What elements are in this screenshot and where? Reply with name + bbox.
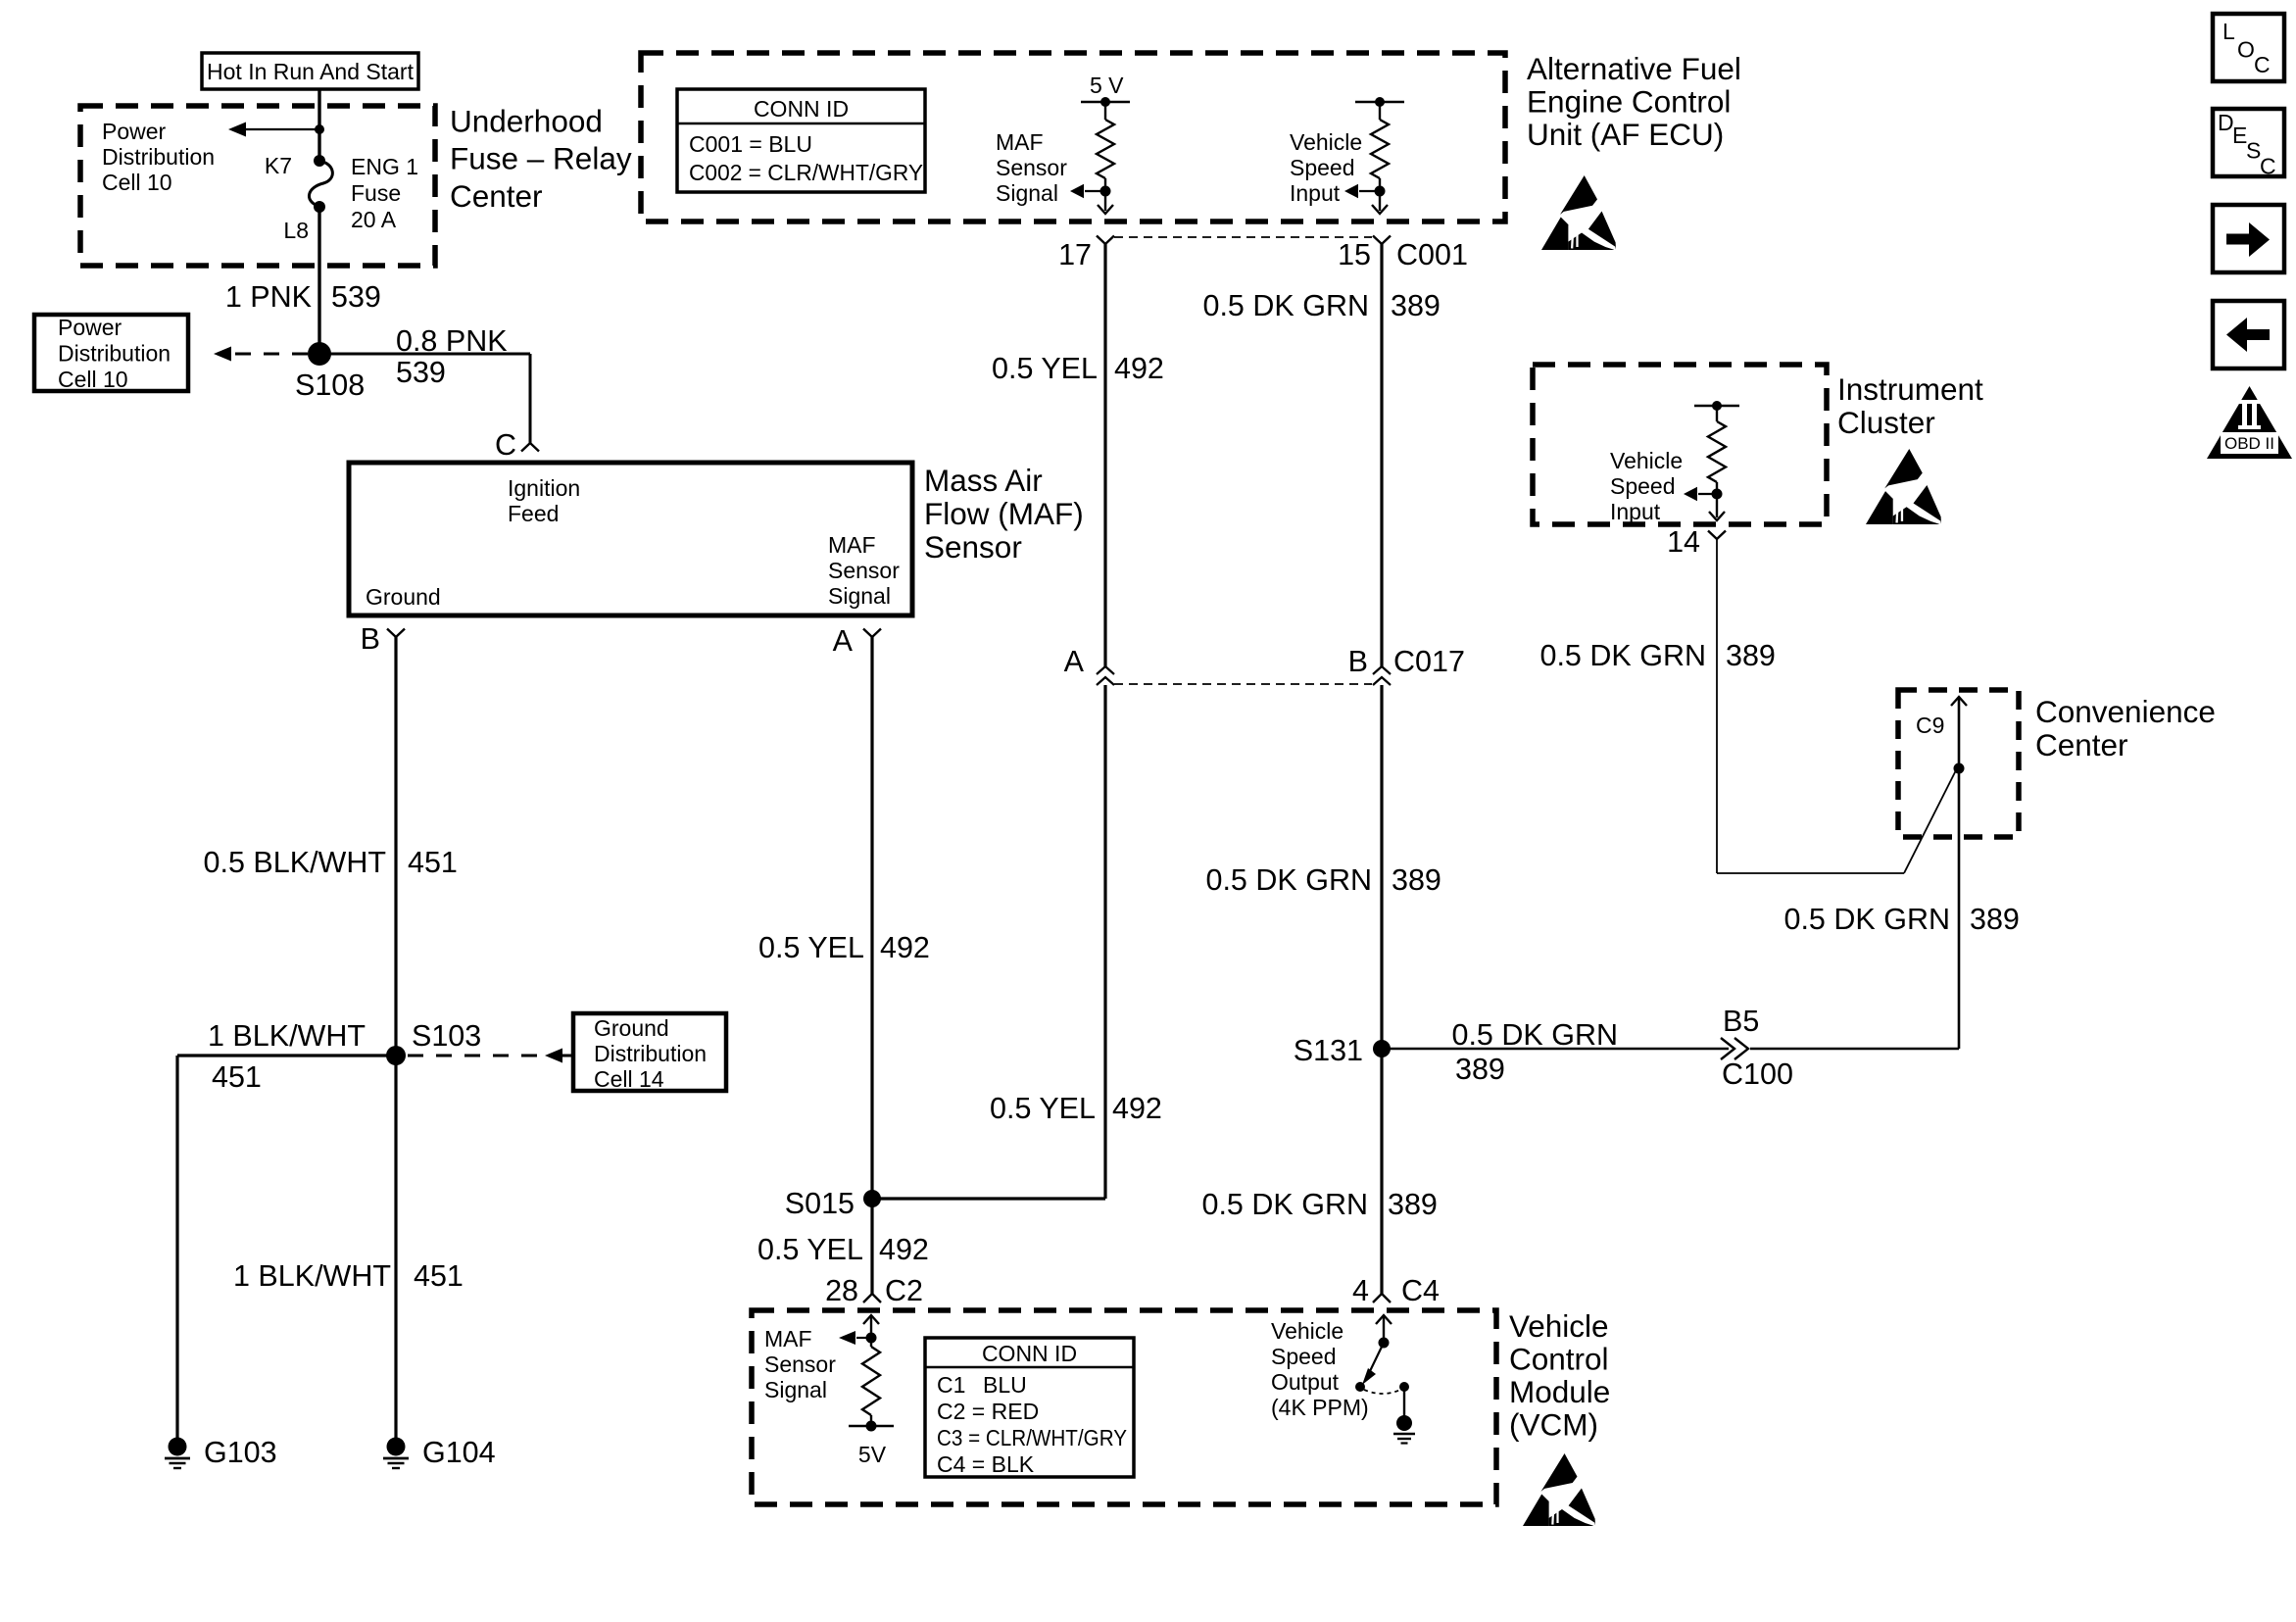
svg-text:539: 539 xyxy=(396,356,446,389)
svg-text:389: 389 xyxy=(1392,863,1441,897)
svg-text:0.5 BLK/WHT: 0.5 BLK/WHT xyxy=(204,846,386,879)
svg-text:C001 = BLU: C001 = BLU xyxy=(689,131,812,157)
svg-text:Vehicle: Vehicle xyxy=(1271,1318,1343,1344)
svg-text:S015: S015 xyxy=(785,1187,855,1220)
svg-text:17: 17 xyxy=(1058,238,1092,271)
svg-text:Speed: Speed xyxy=(1290,155,1355,180)
svg-text:389: 389 xyxy=(1388,1188,1438,1221)
svg-text:CONN ID: CONN ID xyxy=(982,1341,1077,1366)
svg-text:20 A: 20 A xyxy=(351,207,397,232)
svg-text:Sensor: Sensor xyxy=(828,558,900,583)
svg-text:C: C xyxy=(2254,52,2271,77)
svg-text:C002 = CLR/WHT/GRY: C002 = CLR/WHT/GRY xyxy=(689,160,923,185)
svg-text:Vehicle: Vehicle xyxy=(1290,129,1362,155)
svg-text:0.5 YEL: 0.5 YEL xyxy=(758,931,864,964)
svg-text:Input: Input xyxy=(1610,499,1661,524)
svg-text:Input: Input xyxy=(1290,180,1341,206)
svg-text:5V: 5V xyxy=(858,1442,887,1467)
svg-text:MAF: MAF xyxy=(764,1326,812,1352)
svg-text:S103: S103 xyxy=(412,1019,481,1053)
svg-text:Instrument: Instrument xyxy=(1837,371,1983,407)
svg-text:Underhood: Underhood xyxy=(450,104,603,139)
svg-text:0.5 DK GRN: 0.5 DK GRN xyxy=(1203,289,1370,322)
svg-text:0.5 DK GRN: 0.5 DK GRN xyxy=(1540,639,1707,672)
svg-text:O: O xyxy=(2237,37,2255,63)
svg-text:MAF: MAF xyxy=(996,129,1044,155)
svg-text:Distribution: Distribution xyxy=(58,341,171,367)
svg-text:Center: Center xyxy=(2035,727,2128,762)
svg-text:S108: S108 xyxy=(295,369,365,402)
svg-text:BLU: BLU xyxy=(983,1372,1027,1398)
svg-text:5 V: 5 V xyxy=(1090,73,1124,98)
svg-text:C2: C2 xyxy=(885,1274,923,1307)
svg-text:389: 389 xyxy=(1455,1053,1505,1086)
svg-text:539: 539 xyxy=(331,280,381,314)
svg-text:28: 28 xyxy=(825,1274,858,1307)
svg-text:Speed: Speed xyxy=(1271,1344,1337,1369)
svg-text:L8: L8 xyxy=(283,218,309,243)
svg-text:C001: C001 xyxy=(1396,238,1468,271)
svg-text:0.5 YEL: 0.5 YEL xyxy=(992,352,1098,385)
svg-text:C100: C100 xyxy=(1722,1057,1793,1091)
svg-text:4: 4 xyxy=(1352,1274,1369,1307)
svg-text:Vehicle: Vehicle xyxy=(1509,1308,1609,1344)
svg-text:Mass Air: Mass Air xyxy=(924,463,1043,498)
svg-text:C3 = CLR/WHT/GRY: C3 = CLR/WHT/GRY xyxy=(937,1425,1127,1450)
svg-text:15: 15 xyxy=(1338,238,1371,271)
svg-text:451: 451 xyxy=(212,1060,262,1094)
svg-text:C9: C9 xyxy=(1916,713,1944,738)
svg-text:ENG 1: ENG 1 xyxy=(351,154,418,179)
svg-text:OBD II: OBD II xyxy=(2224,434,2274,453)
svg-text:Sensor: Sensor xyxy=(764,1352,836,1377)
svg-text:Signal: Signal xyxy=(828,583,891,609)
svg-text:Distribution: Distribution xyxy=(594,1041,707,1066)
svg-text:14: 14 xyxy=(1667,525,1700,559)
svg-text:389: 389 xyxy=(1970,903,2020,936)
svg-text:(4K PPM): (4K PPM) xyxy=(1271,1395,1369,1420)
svg-text:0.5 YEL: 0.5 YEL xyxy=(757,1233,863,1266)
svg-text:Ignition: Ignition xyxy=(508,475,580,501)
svg-text:A: A xyxy=(1064,645,1085,678)
svg-text:Engine Control: Engine Control xyxy=(1527,84,1731,120)
svg-text:K7: K7 xyxy=(265,153,292,178)
svg-text:C4 = BLK: C4 = BLK xyxy=(937,1451,1035,1477)
svg-text:1 BLK/WHT: 1 BLK/WHT xyxy=(208,1019,366,1053)
svg-text:C017: C017 xyxy=(1393,645,1465,678)
svg-text:Unit (AF ECU): Unit (AF ECU) xyxy=(1527,117,1724,152)
svg-text:492: 492 xyxy=(880,931,930,964)
svg-text:Output: Output xyxy=(1271,1369,1340,1395)
svg-text:0.5 DK GRN: 0.5 DK GRN xyxy=(1784,903,1951,936)
svg-text:389: 389 xyxy=(1726,639,1776,672)
svg-text:G103: G103 xyxy=(204,1436,277,1469)
svg-text:B5: B5 xyxy=(1723,1005,1759,1038)
svg-text:C1: C1 xyxy=(937,1372,965,1398)
svg-text:0.5 DK GRN: 0.5 DK GRN xyxy=(1206,863,1373,897)
svg-text:Fuse: Fuse xyxy=(351,180,401,206)
svg-text:Alternative Fuel: Alternative Fuel xyxy=(1527,51,1741,86)
svg-text:Cell 10: Cell 10 xyxy=(58,367,128,392)
svg-text:G104: G104 xyxy=(422,1436,496,1469)
svg-text:L: L xyxy=(2223,19,2235,44)
svg-text:Cell 14: Cell 14 xyxy=(594,1066,664,1092)
svg-text:0.8 PNK: 0.8 PNK xyxy=(396,324,508,358)
svg-text:0.5 DK GRN: 0.5 DK GRN xyxy=(1452,1018,1619,1052)
svg-text:S131: S131 xyxy=(1294,1034,1363,1067)
svg-text:Fuse – Relay: Fuse – Relay xyxy=(450,141,632,176)
svg-text:Signal: Signal xyxy=(764,1377,827,1402)
svg-text:C2 = RED: C2 = RED xyxy=(937,1399,1039,1424)
svg-text:451: 451 xyxy=(414,1259,464,1293)
svg-text:1 BLK/WHT: 1 BLK/WHT xyxy=(233,1259,391,1293)
svg-text:Sensor: Sensor xyxy=(996,155,1067,180)
svg-text:Ground: Ground xyxy=(366,584,441,610)
svg-text:C4: C4 xyxy=(1401,1274,1440,1307)
svg-text:0.5 YEL: 0.5 YEL xyxy=(990,1092,1096,1125)
svg-text:Hot In Run And Start: Hot In Run And Start xyxy=(207,59,415,84)
svg-text:Feed: Feed xyxy=(508,501,559,526)
svg-text:A: A xyxy=(833,624,854,658)
svg-text:Center: Center xyxy=(450,178,543,214)
svg-text:389: 389 xyxy=(1391,289,1441,322)
svg-text:B: B xyxy=(361,622,380,656)
svg-text:MAF: MAF xyxy=(828,532,876,558)
svg-text:(VCM): (VCM) xyxy=(1509,1407,1598,1443)
svg-text:451: 451 xyxy=(408,846,458,879)
svg-text:Flow (MAF): Flow (MAF) xyxy=(924,496,1084,531)
svg-text:Convenience: Convenience xyxy=(2035,694,2216,729)
svg-text:Cluster: Cluster xyxy=(1837,405,1935,440)
svg-text:492: 492 xyxy=(1112,1092,1162,1125)
svg-text:Control: Control xyxy=(1509,1342,1609,1377)
svg-text:Power: Power xyxy=(58,315,122,340)
svg-text:Signal: Signal xyxy=(996,180,1058,206)
svg-text:Vehicle: Vehicle xyxy=(1610,448,1683,473)
svg-text:1 PNK: 1 PNK xyxy=(225,280,312,314)
svg-text:492: 492 xyxy=(1114,352,1164,385)
svg-text:Speed: Speed xyxy=(1610,473,1676,499)
svg-text:Ground: Ground xyxy=(594,1015,669,1041)
svg-text:Power: Power xyxy=(102,119,167,144)
svg-text:492: 492 xyxy=(879,1233,929,1266)
svg-text:Cell 10: Cell 10 xyxy=(102,170,172,195)
svg-text:C: C xyxy=(2260,154,2276,179)
svg-text:CONN ID: CONN ID xyxy=(754,96,849,122)
svg-text:Distribution: Distribution xyxy=(102,144,215,170)
svg-text:Sensor: Sensor xyxy=(924,529,1022,565)
svg-text:Module: Module xyxy=(1509,1374,1610,1409)
svg-text:C: C xyxy=(495,428,516,462)
svg-text:B: B xyxy=(1348,645,1368,678)
svg-text:0.5 DK GRN: 0.5 DK GRN xyxy=(1202,1188,1369,1221)
